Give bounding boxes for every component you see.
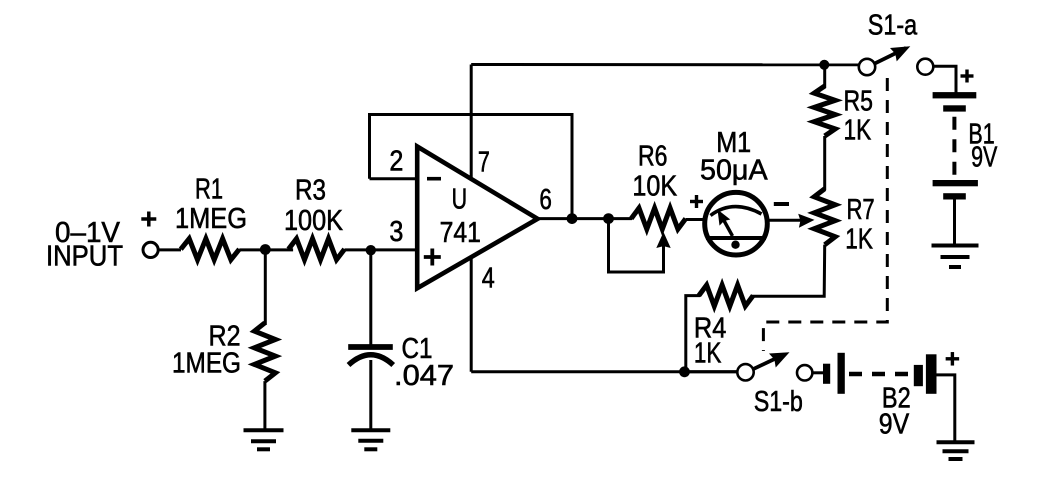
label B2 9V: [879, 383, 911, 441]
wire pin 2: [370, 177, 419, 180]
svg-text:U: U: [452, 183, 468, 215]
wire S1-b throw to B2: [812, 371, 824, 374]
resistor R3: [289, 239, 345, 260]
switch S1-b arm arrowhead: [769, 352, 790, 367]
ground for C1: [351, 430, 390, 449]
switch S1-a arm arrowhead: [890, 46, 910, 61]
node top rail R5 junction: [819, 60, 829, 70]
resistor R5: [814, 86, 835, 136]
battery B1 plates: [933, 92, 978, 199]
switch S1-a pole contact: [859, 59, 875, 75]
wire meter to R7 wiper: [767, 219, 803, 222]
switch S1-a throw contact: [917, 59, 933, 75]
wire node A down to R2: [264, 250, 267, 326]
node R6 wiper tap junction: [603, 213, 614, 224]
svg-text:50μA: 50μA: [700, 155, 768, 187]
R6 wiper arrowhead: [656, 232, 670, 248]
wire S1-a throw to B1: [933, 66, 956, 93]
resistor R4: [699, 285, 753, 306]
meter M1 minus sign: [774, 202, 789, 206]
feedback wire pin2 loop to output: [370, 115, 573, 219]
wire pin 4 to bottom rail: [470, 256, 473, 372]
switch S1-b throw contact: [797, 365, 812, 380]
svg-text:3: 3: [389, 216, 403, 248]
wire node A to R3: [265, 248, 293, 251]
input plus polarity: [141, 212, 156, 227]
svg-text:R3: R3: [295, 175, 326, 207]
label R5 1K: [844, 86, 874, 147]
resistor R1: [181, 239, 240, 260]
R7 wiper arrowhead: [798, 214, 814, 228]
wire input terminal to R1: [158, 248, 181, 251]
svg-text:1MEG: 1MEG: [172, 348, 241, 380]
switch S1-b pole contact: [737, 364, 753, 380]
wire B2 to ground: [937, 375, 955, 442]
svg-text:1K: 1K: [694, 338, 722, 370]
wire op-amp output pin 6: [536, 217, 632, 220]
label R2 1MEG: [172, 321, 241, 380]
switch S1-b arm: [753, 355, 784, 370]
resistor R7 potentiometer: [814, 189, 835, 245]
wire R6 to meter plus terminal: [686, 218, 706, 221]
svg-text:2: 2: [389, 146, 403, 178]
node A junction R1 R2 R3: [260, 244, 271, 255]
op-amp minus input symbol: [427, 177, 441, 181]
wire C1 to ground: [369, 360, 372, 430]
svg-text:.047: .047: [394, 360, 454, 392]
B1 plus sign: [961, 70, 974, 83]
meter M1: [705, 192, 768, 255]
resistor R6 potentiometer: [631, 208, 686, 229]
label M1 50uA: [700, 127, 768, 187]
svg-text:100K: 100K: [284, 205, 344, 237]
svg-text:741: 741: [440, 217, 481, 249]
ground for B1: [932, 246, 979, 268]
svg-text:S1-a: S1-a: [868, 9, 918, 41]
input label 0-1V INPUT: [46, 217, 123, 273]
label R7 1K: [845, 194, 874, 256]
svg-text:INPUT: INPUT: [46, 241, 123, 273]
wire C1 tap down to C1: [369, 250, 372, 346]
svg-text:R7: R7: [847, 194, 875, 226]
wire B1 to ground: [953, 200, 956, 246]
switch S1 linkage dashed line: [763, 78, 887, 351]
svg-text:R6: R6: [638, 141, 668, 173]
B2 dashed cell link: [849, 372, 914, 377]
wire R1 to node A: [239, 248, 266, 251]
svg-text:7: 7: [478, 147, 490, 179]
top rail wire: [471, 63, 859, 66]
B2 plus sign: [946, 352, 960, 366]
wire pin 7 to top rail: [470, 65, 473, 181]
label R1 1MEG: [175, 174, 247, 236]
svg-text:1K: 1K: [844, 115, 872, 147]
label U 741: [440, 183, 481, 248]
meter M1 plus sign: [690, 195, 703, 208]
node C1 tap on pin 3 wire: [366, 245, 376, 255]
label R3 100K: [284, 175, 344, 238]
svg-text:R1: R1: [195, 174, 223, 206]
svg-text:10K: 10K: [632, 171, 677, 203]
label R6 10K: [632, 141, 677, 203]
op-amp U1 741 triangle: [417, 147, 537, 289]
node bottom rail to S1-b wire: [685, 370, 739, 373]
wire R5 to R7: [823, 136, 826, 190]
svg-text:1MEG: 1MEG: [175, 203, 247, 235]
svg-text:6: 6: [539, 184, 552, 216]
resistor R2: [254, 323, 275, 381]
B1 dashed cell link: [952, 117, 956, 175]
wire R2 to ground: [263, 381, 266, 430]
ground for R2: [244, 430, 284, 449]
input terminal: [143, 242, 158, 257]
node output feedback junction: [567, 213, 578, 224]
wire R7 bottom to R4: [751, 245, 825, 297]
wire R4 to bottom rail: [686, 296, 700, 372]
svg-text:S1-b: S1-b: [754, 386, 803, 418]
wire R3 to op-amp pin 3: [345, 248, 420, 251]
svg-text:9V: 9V: [971, 142, 998, 174]
capacitor C1: [348, 347, 393, 365]
svg-text:4: 4: [482, 263, 495, 295]
label B1 9V: [968, 119, 997, 174]
label C1 .047: [394, 333, 454, 392]
battery B2 plates: [823, 353, 937, 394]
op-amp plus input symbol: [424, 249, 441, 266]
ground for B2: [937, 442, 975, 459]
wire node to R5: [823, 65, 826, 88]
svg-text:1K: 1K: [845, 224, 873, 256]
node bottom rail R4 junction: [679, 366, 690, 377]
label R4 1K: [694, 313, 726, 370]
svg-text:R5: R5: [844, 86, 874, 118]
svg-text:9V: 9V: [879, 409, 910, 441]
bottom rail wire: [471, 370, 738, 373]
switch S1-a arm: [875, 48, 906, 64]
R6 wiper arm wire: [609, 219, 664, 272]
